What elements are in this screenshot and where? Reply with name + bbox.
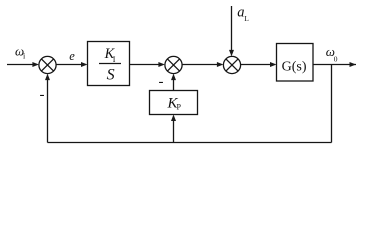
svg-text:-: - xyxy=(159,74,164,90)
svg-text:I: I xyxy=(113,55,116,64)
svg-text:S: S xyxy=(107,67,115,84)
svg-text:L: L xyxy=(244,14,249,23)
svg-text:P: P xyxy=(177,103,182,112)
svg-text:-: - xyxy=(40,87,45,103)
svg-text:G(s): G(s) xyxy=(282,60,307,75)
svg-text:e: e xyxy=(69,49,75,63)
svg-text:0: 0 xyxy=(334,54,338,63)
